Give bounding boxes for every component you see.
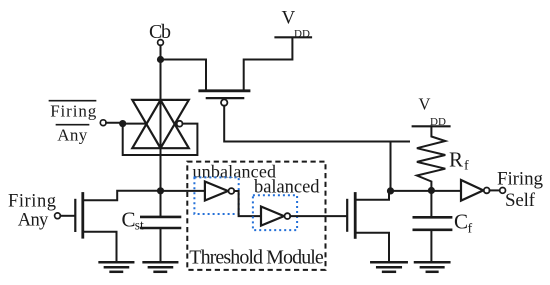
terminal Firing-Any-bar xyxy=(100,120,106,126)
svg-text:V: V xyxy=(282,8,296,29)
svg-text:Firing: Firing xyxy=(497,169,544,190)
wire M2 source to ground xyxy=(83,232,117,262)
inverter U2 balanced dotted box xyxy=(253,195,297,230)
latch cross-coupled inverter triangle (up) xyxy=(132,100,189,148)
inverter U2 bubble xyxy=(285,213,291,219)
svg-text:Any: Any xyxy=(57,126,87,145)
terminal Firing Self xyxy=(500,188,506,194)
inverter U1 unbalanced dotted box xyxy=(194,177,238,214)
transistor M3 NMOS gate bar xyxy=(346,200,348,231)
wire latch vertical (Cb node through latch to node A) xyxy=(160,60,162,191)
wire M3 source to ground xyxy=(355,233,389,262)
svg-text:Any: Any xyxy=(18,211,49,231)
svg-text:Firing: Firing xyxy=(50,102,96,121)
ground M2 source xyxy=(100,261,134,264)
svg-text:Firing: Firing xyxy=(8,192,56,212)
power VDD top bar xyxy=(276,36,312,38)
inverter U3 output buffer triangle xyxy=(461,180,483,201)
inverter U1 triangle xyxy=(205,182,228,201)
junction node A xyxy=(157,187,164,194)
capacitor Cst wire xyxy=(160,191,162,217)
module box Threshold Module xyxy=(187,162,325,270)
svg-text:R: R xyxy=(449,148,463,172)
capacitor Cf wire xyxy=(430,191,432,218)
wire Cb node to PMOS source xyxy=(161,60,207,91)
terminal Cb xyxy=(158,40,164,46)
capacitor Cf top plate xyxy=(414,216,451,219)
transistor M2 NMOS gate bar xyxy=(74,200,76,231)
wire Cst to ground xyxy=(160,228,162,261)
wire M2 drain to node A xyxy=(83,191,161,201)
inverter U2 triangle xyxy=(261,207,284,226)
wire U1 output to U2 input xyxy=(234,191,261,216)
svg-text:DD: DD xyxy=(294,28,310,40)
transistor M1 PMOS gate bubble xyxy=(221,99,227,105)
overline Firing xyxy=(50,100,96,102)
ground M3 source xyxy=(371,261,406,264)
svg-text:f: f xyxy=(468,222,473,237)
ground Cst xyxy=(144,261,178,264)
svg-text:Threshold Module: Threshold Module xyxy=(189,247,324,269)
terminal Firing Any xyxy=(55,213,61,219)
wire node A to threshold module input xyxy=(161,190,205,192)
svg-text:V: V xyxy=(419,95,431,114)
wire Cf to ground xyxy=(430,230,432,262)
wire Cb terminal to node xyxy=(160,45,162,59)
svg-text:Self: Self xyxy=(505,190,536,211)
wire M1 gate to node B xyxy=(224,106,409,142)
junction latch input xyxy=(119,120,126,127)
wire terminal to M2 gate xyxy=(60,215,74,217)
wire latch feedback loop xyxy=(123,124,198,155)
wire U3 output to terminal xyxy=(490,189,500,191)
svg-text:C: C xyxy=(122,208,136,232)
capacitor Cst bottom plate xyxy=(141,227,180,230)
junction node A3 xyxy=(428,187,435,194)
wire U2 output to M3 gate xyxy=(290,215,347,217)
wire M1 drain to VDD xyxy=(244,38,293,91)
inverter U3 bubble xyxy=(484,188,490,194)
svg-text:st: st xyxy=(135,218,144,233)
svg-text:f: f xyxy=(464,159,469,174)
transistor M1 PMOS channel xyxy=(200,89,249,92)
transistor M2 NMOS channel xyxy=(81,194,84,238)
transistor M3 NMOS channel xyxy=(354,194,357,238)
wire node B down to node A2 xyxy=(390,142,392,191)
inverter U1 bubble xyxy=(229,188,235,194)
junction node A2 xyxy=(387,187,394,194)
resistor Rf xyxy=(417,126,445,190)
latch output bubble xyxy=(177,121,183,127)
svg-text:C: C xyxy=(454,210,468,234)
capacitor Cf bottom plate xyxy=(414,229,451,232)
latch cross-coupled inverter triangle (down) xyxy=(132,100,189,148)
capacitor Cst top plate xyxy=(141,216,180,219)
overline Any xyxy=(57,124,89,126)
wire node A2 to node A3 to buffer xyxy=(391,190,462,192)
transistor M1 PMOS gate bar xyxy=(207,97,243,99)
junction Cb node xyxy=(157,56,164,63)
wire M3 drain to node A2 xyxy=(355,191,389,200)
ground Cf xyxy=(415,261,449,264)
power VDD right bar xyxy=(413,125,450,127)
wire terminal to latch input xyxy=(106,122,146,125)
